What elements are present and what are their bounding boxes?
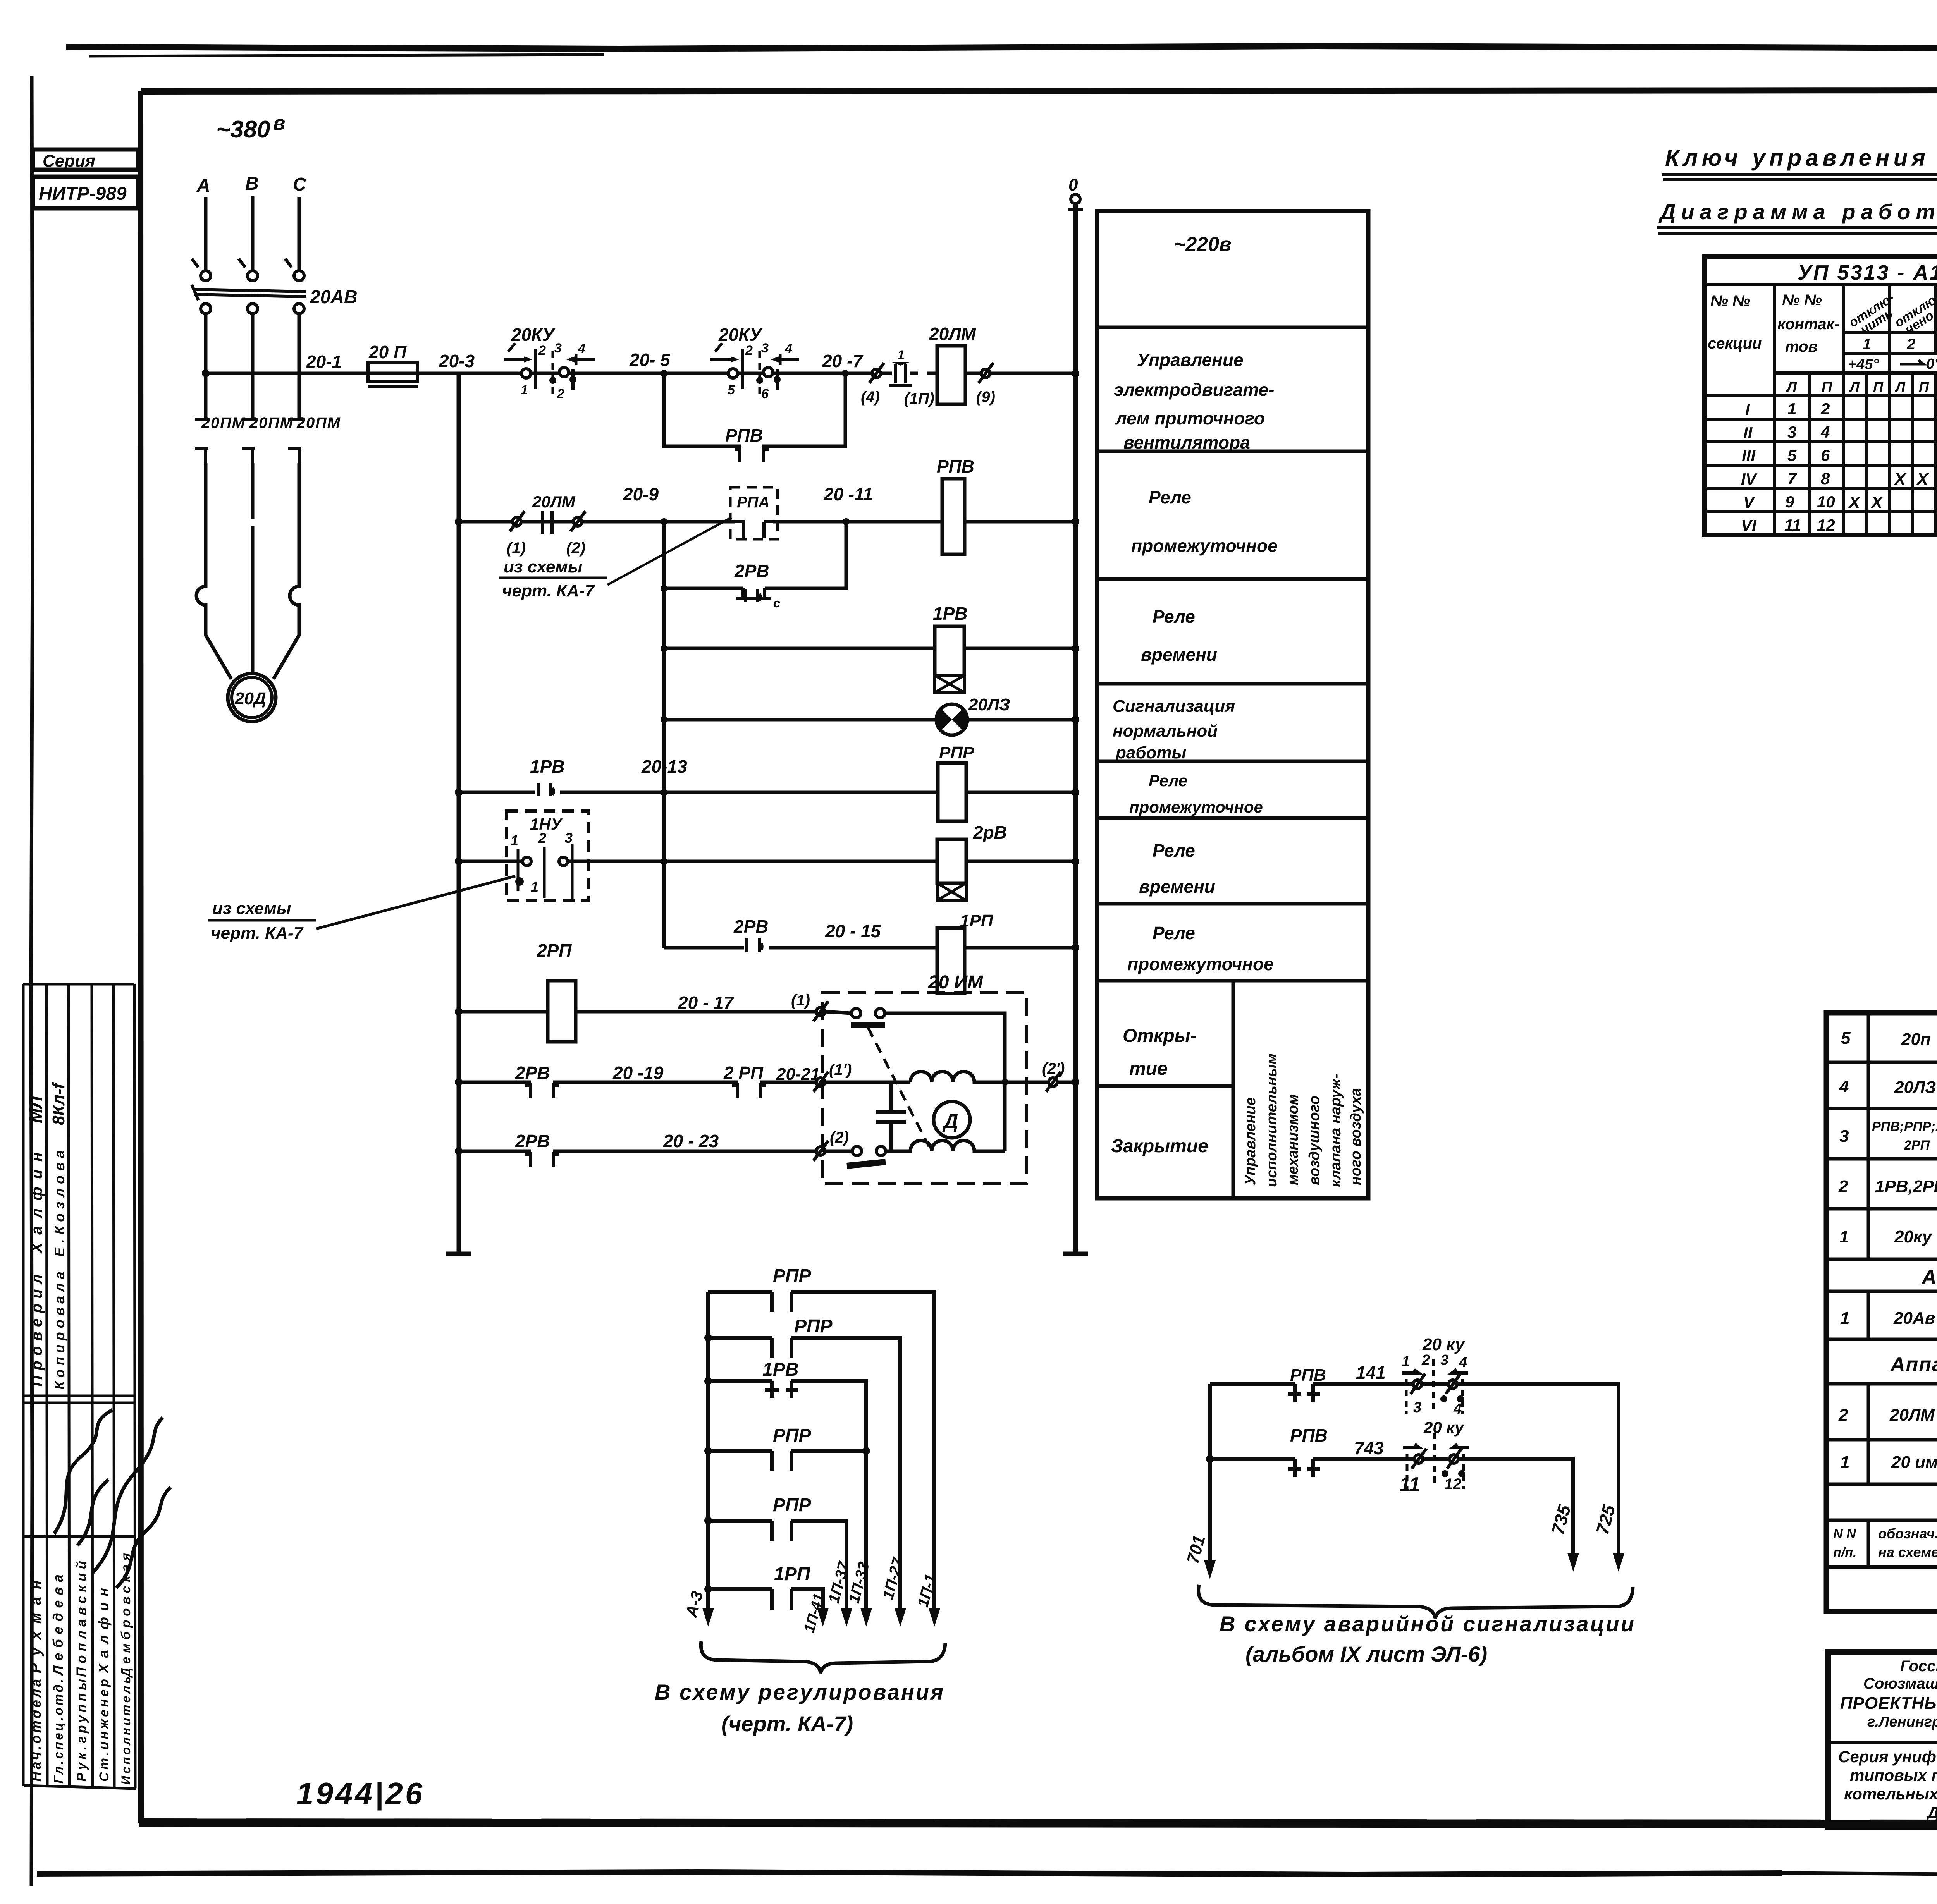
svg-text:клапана наруж-: клапана наруж- [1328,1074,1344,1187]
svg-text:РПР: РПР [794,1316,833,1337]
title block inner horizontals [1828,1682,1937,1792]
svg-text:20ку: 20ку [1894,1227,1933,1246]
switch 1NU contacts [523,857,531,866]
switch 1NU pole lines [518,844,572,901]
terminal 0 [1071,194,1080,204]
svg-text:4: 4 [1453,1401,1462,1417]
svg-text:(2'): (2') [1042,1060,1065,1077]
node branch right [842,370,849,377]
node rung 20-23 left [455,1147,463,1155]
breaker 20AB poles [192,259,306,314]
motor 20D [228,674,276,722]
svg-text:Реле: Реле [1153,607,1195,627]
limit switch link dashed [868,1027,929,1146]
svg-text:20ЛМ: 20ЛМ [929,324,977,344]
contact (2') [1046,1072,1061,1092]
svg-text:Серия: Серия [43,151,95,170]
contactor contact 20PM phase A [195,419,209,463]
svg-text:РПВ: РПВ [1290,1425,1328,1445]
contact (2) [814,1141,828,1161]
switch lower contact dot [515,877,524,886]
arrow 1П-1 [929,1608,940,1627]
node feeder 20-13 [661,789,667,796]
svg-text:времени: времени [1141,644,1217,665]
node reg line5 [704,1517,712,1524]
svg-text:промежуточное: промежуточное [1129,798,1263,816]
svg-text:типовых проектов: типовых проектов [1850,1766,1937,1784]
svg-text:(2): (2) [830,1129,849,1146]
brace reg [701,1641,945,1673]
svg-text:ДКВР.: ДКВР. [1926,1803,1937,1822]
svg-text:20АВ: 20АВ [310,287,358,308]
contact 2RV nc [525,1152,559,1167]
svg-text:7: 7 [1787,469,1797,488]
svg-text:5: 5 [728,383,735,397]
svg-text:+45°: +45° [1848,356,1879,373]
wire reg line1 [708,1292,934,1613]
svg-text:2: 2 [1820,400,1830,418]
svg-text:на схеме: на схеме [1878,1544,1937,1560]
svg-text:Серия унифицированных: Серия унифицированных [1838,1748,1937,1766]
node rung2 right [1072,518,1079,526]
contact 2RV time [747,938,762,952]
svg-text:6: 6 [761,387,769,401]
svg-text:обознач.: обознач. [1878,1526,1937,1541]
svg-text:3: 3 [1839,1127,1849,1146]
svg-text:1: 1 [521,383,528,397]
svg-text:~380: ~380 [216,116,270,143]
coil 20LM [937,346,965,404]
lamp 20LZ [936,704,967,735]
svg-text:Х: Х [1916,470,1929,489]
drawing frame [141,90,1937,91]
svg-text:20-3: 20-3 [439,351,475,371]
svg-text:черт. КА-7: черт. КА-7 [502,581,595,600]
arrow 1П-37 [841,1608,852,1627]
svg-text:нормальной: нормальной [1113,722,1218,741]
svg-text:Сигнализация: Сигнализация [1113,697,1235,716]
contact РПР [772,1338,791,1358]
svg-text:2: 2 [538,830,546,846]
svg-text:котельных с котлами: котельных с котлами [1844,1785,1937,1803]
svg-text:механизмом: механизмом [1285,1094,1301,1185]
key contact 20КУ lower [1412,1449,1426,1469]
node rung 1RV right [1072,644,1079,652]
node reg line4 right [862,1447,870,1455]
svg-text:тов: тов [1785,338,1818,355]
svg-text:(1): (1) [507,540,526,557]
contact 1РВ time [765,1381,798,1398]
svg-text:1: 1 [531,879,538,895]
svg-text:N N: N N [1833,1527,1856,1541]
svg-text:РПВ;РПР;1РП: РПВ;РПР;1РП [1872,1119,1937,1134]
svg-text:20п: 20п [1901,1030,1931,1049]
svg-text:VI: VI [1741,516,1757,534]
svg-text:0: 0 [1068,175,1078,194]
svg-text:20 - 17: 20 - 17 [678,993,735,1013]
svg-text:№ №: № № [1710,292,1750,309]
signature table grid [23,984,136,1789]
svg-text:11: 11 [1399,1473,1420,1496]
switch 20KU contacts 5-6 [728,369,738,378]
svg-text:2: 2 [557,387,564,401]
svg-text:20 ИМ: 20 ИМ [928,972,983,993]
node reg line2 [704,1334,712,1342]
svg-text:20 им: 20 им [1891,1453,1937,1472]
svg-text:20ЛМ: 20ЛМ [532,493,576,511]
wire phase A drop [204,197,208,270]
svg-text:Х: Х [1893,470,1907,489]
svg-text:IV: IV [1741,470,1758,488]
svg-text:2 РП: 2 РП [723,1063,764,1083]
svg-text:ПРОЕКТНЫЙ ИНСТИТУТ №1: ПРОЕКТНЫЙ ИНСТИТУТ №1 [1840,1693,1937,1713]
wire rung 20-23 [459,1150,852,1153]
svg-text:20 -7: 20 -7 [822,351,864,371]
svg-text:Л: Л [1894,379,1906,395]
svg-text:1944|26: 1944|26 [296,1776,425,1811]
svg-text:(9): (9) [976,388,995,406]
svg-text:(2): (2) [566,540,585,557]
svg-text:1: 1 [1787,400,1796,418]
contact RPV [735,447,769,462]
svg-text:20ЛМ: 20ЛМ [1889,1406,1935,1425]
vertical feeder wire [662,588,666,948]
svg-text:20 -11: 20 -11 [823,484,873,504]
svg-text:Л: Л [1786,379,1797,395]
coil RPV [942,479,965,554]
svg-text:I: I [1745,400,1750,419]
svg-text:РПВ: РПВ [937,456,974,476]
contact РПВ [1288,1459,1320,1477]
relay RPA dashed box [730,487,778,539]
key contact 20КУ upper [1411,1374,1425,1394]
node feeder 2RV rung [661,858,667,865]
svg-text:743: 743 [1354,1438,1384,1458]
svg-text:лем приточного: лем приточного [1115,408,1265,428]
node rung 20-19 right [1072,1078,1079,1086]
arrow 735 [1567,1553,1579,1572]
svg-text:П: П [1873,379,1884,395]
svg-text:в: в [273,112,285,134]
svg-text:3: 3 [1440,1352,1448,1368]
svg-text:Реле: Реле [1149,487,1191,507]
svg-text:1: 1 [897,348,905,363]
svg-text:8Кл-f: 8Кл-f [49,1081,68,1125]
contact (4) [869,363,884,383]
svg-text:ного воздуха: ного воздуха [1348,1088,1364,1185]
node 2RV branch [661,585,667,592]
svg-text:5: 5 [1841,1029,1851,1048]
scan border top [66,46,1937,49]
scan border left [31,76,33,1886]
svg-text:20 П: 20 П [368,342,407,362]
svg-text:20ЛЗ: 20ЛЗ [968,695,1010,714]
node 20-5 [661,370,667,377]
svg-text:электродвигате-: электродвигате- [1114,380,1274,400]
capacitor [889,1082,893,1151]
svg-text:4: 4 [1459,1354,1467,1371]
svg-text:Управление: Управление [1242,1097,1259,1185]
wire lamp rung [664,718,1075,722]
svg-text:3: 3 [565,830,573,846]
svg-text:3: 3 [1413,1399,1421,1416]
avar bus left [1208,1384,1212,1565]
svg-text:контак-: контак- [1777,316,1839,333]
limit switch lower [852,1146,862,1156]
arrow 1П-41 [817,1608,829,1627]
svg-text:Д: Д [942,1110,958,1132]
wire phase B to motor [251,463,255,673]
svg-text:2РВ: 2РВ [734,561,769,581]
svg-text:(1'): (1') [829,1061,852,1078]
svg-text:Закрытие: Закрытие [1111,1136,1208,1156]
svg-text:20-9: 20-9 [623,484,659,504]
coil 1RP [937,928,965,993]
svg-text:1: 1 [511,832,518,848]
svg-text:РПВ: РПВ [725,425,763,445]
contact 2RV [525,1083,559,1098]
svg-text:4: 4 [1820,423,1830,441]
svg-text:УП 5313 - А19: УП 5313 - А19 [1798,261,1937,284]
svg-text:2РВ: 2РВ [515,1131,550,1151]
svg-text:из схемы: из схемы [504,557,582,576]
svg-text:20ПМ: 20ПМ [249,414,294,431]
svg-text:4: 4 [578,342,585,356]
svg-text:10: 10 [1817,493,1835,511]
contactor contact 20PM phase B [242,419,256,463]
svg-text:20Ав: 20Ав [1893,1309,1935,1328]
svg-text:РПА: РПА [737,494,769,511]
svg-text:2рВ: 2рВ [973,822,1007,842]
function table frame [1097,211,1368,1198]
svg-text:Рук.группы: Рук.группы [74,1679,89,1782]
svg-text:20ПМ: 20ПМ [201,414,246,431]
node rung 20-13 left [455,789,463,796]
svg-text:1РП: 1РП [960,911,994,930]
node rung 2RV left [455,857,463,865]
arrow A-3 [702,1608,714,1627]
svg-text:Управление: Управление [1137,350,1244,370]
node lamp rung right [1072,716,1079,723]
spec table horizontals [1826,1062,1937,1567]
svg-text:Союзмашстройпроект: Союзмашстройпроект [1863,1675,1937,1692]
svg-text:Х: Х [1848,493,1861,512]
svg-text:п/п.: п/п. [1833,1545,1856,1560]
svg-text:1: 1 [1839,1227,1849,1246]
svg-text:12: 12 [1444,1476,1462,1493]
svg-text:1РВ: 1РВ [530,756,564,777]
wire phase A with heater bump [196,463,231,679]
svg-text:Аппаратура на щите вентиляц: Аппаратура на щите вентиляции [1921,1266,1937,1289]
relay 1RV time coil [935,626,964,675]
node reg line4 left [704,1447,712,1455]
left bus [457,373,461,1254]
node 20-9 [661,518,667,525]
svg-text:20- 5: 20- 5 [629,350,671,370]
node rung 20-13 right [1072,789,1079,796]
contact 1РП [772,1589,791,1610]
svg-text:V: V [1743,493,1755,511]
wire phase B down [251,314,255,420]
contact (1') [814,1072,828,1092]
table grid horizontals [1705,284,1937,512]
svg-text:Реле: Реле [1149,772,1187,790]
wire rung 2RV coil [459,860,1075,863]
svg-text:НИТР-989: НИТР-989 [39,184,127,204]
wire reg line6 [708,1589,823,1613]
contact РПР [772,1292,791,1312]
arrow 701 [1204,1560,1216,1579]
svg-text:141: 141 [1356,1363,1386,1383]
svg-text:2РВ: 2РВ [515,1063,550,1083]
2RV branch wire [664,522,846,588]
node 20-11 [843,518,850,525]
node rung 2RV right [1072,857,1079,865]
svg-text:воздушного: воздушного [1306,1096,1323,1185]
svg-text:времени: времени [1139,876,1215,897]
contact 1P [889,364,912,386]
contact 1RV time [538,783,554,796]
switch 20KU contacts 1-2 [521,369,531,378]
svg-text:Госстрой СССР: Госстрой СССР [1900,1658,1937,1675]
limit switch upper [852,1009,861,1018]
svg-text:секции: секции [1708,335,1762,352]
svg-text:2: 2 [1838,1406,1848,1425]
key diagram table frame [1705,257,1937,535]
brace avar [1199,1585,1633,1618]
svg-text:(альбом IX лист ЭЛ-6): (альбом IX лист ЭЛ-6) [1245,1642,1487,1666]
svg-text:2: 2 [745,343,753,358]
svg-text:Реле: Реле [1153,840,1195,861]
wire avar line1 [1210,1384,1619,1557]
svg-text:20Д: 20Д [234,689,266,708]
node phase A tap [202,369,210,377]
svg-text:1: 1 [1402,1354,1410,1370]
svg-text:промежуточное: промежуточное [1127,954,1274,974]
svg-text:~220в: ~220в [1174,233,1232,256]
right bus end tick [1063,1252,1088,1256]
svg-text:Гл.спец.отд.: Гл.спец.отд. [51,1679,65,1784]
contact (1) [814,1001,828,1021]
svg-text:4: 4 [1839,1077,1849,1096]
motor winding upper [910,1072,1005,1082]
svg-text:Аппаратура на щите станции упр: Аппаратура на щите станции управления ЩС… [1890,1353,1937,1376]
svg-text:4: 4 [784,342,792,356]
svg-text:20ЛЗ: 20ЛЗ [1894,1078,1936,1097]
svg-text:20-13: 20-13 [641,756,687,777]
signature scribbles [54,1410,163,1572]
svg-text:20 ку: 20 ку [1423,1418,1465,1437]
svg-text:Х: Х [1870,493,1884,512]
svg-text:20КУ: 20КУ [511,325,556,345]
svg-text:1НУ: 1НУ [530,815,563,833]
wire rung 1RV [664,647,1075,650]
wire rung1 [206,372,1075,375]
svg-text:2РП: 2РП [537,940,572,961]
svg-text:№ №: № № [1782,292,1822,309]
contact 2RV time [745,589,760,602]
svg-text:В схему аварийной сигнализации: В схему аварийной сигнализации [1220,1612,1634,1636]
svg-text:6: 6 [1821,446,1830,464]
svg-text:11: 11 [1784,516,1801,534]
svg-text:1РВ,2РВ: 1РВ,2РВ [1875,1177,1937,1196]
wire phase C with heater bump [274,463,299,679]
node internal [1001,1079,1008,1086]
contact 2RP [732,1083,766,1098]
wire phase C down [298,314,301,420]
svg-text:20 -19: 20 -19 [612,1063,664,1083]
svg-text:9: 9 [1785,493,1794,511]
node rung 20-15 right [1072,944,1079,952]
node rung2 left [455,518,463,526]
title block frame [1828,1652,1937,1827]
RPV seal-in branch wire [664,373,845,446]
arrow 725 [1613,1553,1624,1572]
node avar line2 [1206,1455,1214,1463]
svg-text:20ПМ: 20ПМ [296,414,341,431]
svg-text:20КУ: 20КУ [718,325,763,345]
svg-text:РПР: РПР [773,1266,812,1286]
wire phase B drop [251,196,255,270]
reg bus left [706,1292,710,1613]
svg-text:2: 2 [1838,1177,1848,1196]
svg-text:Реле: Реле [1153,923,1195,943]
left bus end tick [446,1252,471,1256]
svg-text:тие: тие [1129,1059,1168,1079]
contact 20LM aux [510,511,525,531]
switch 1NU dashed box [506,811,588,901]
table grid verticals [1774,284,1937,535]
svg-text:МЛ: МЛ [26,1096,46,1123]
svg-text:0°: 0° [1926,356,1937,372]
svg-text:8: 8 [1821,469,1830,488]
svg-text:Откры-: Откры- [1123,1026,1197,1046]
svg-text:С: С [293,174,307,195]
contact (9) [979,363,993,383]
node rung 20-19 left [455,1078,463,1086]
arrow 1П-33 [860,1608,872,1627]
spec table frame [1826,1013,1937,1612]
wire reg line4 [708,1449,866,1453]
svg-text:Е.Козлова: Е.Козлова [52,1150,67,1257]
svg-text:20 ку: 20 ку [1422,1335,1466,1354]
svg-text:Л: Л [1849,379,1860,395]
svg-text:20-1: 20-1 [306,352,342,372]
svg-text:П: П [1919,379,1929,395]
wire rung 20-19 [459,1081,910,1084]
contact RPA hooks [735,522,773,538]
svg-text:РПР: РПР [939,743,974,762]
svg-text:из схемы: из схемы [212,899,291,918]
svg-text:2РВ: 2РВ [733,916,768,937]
svg-text:(черт. КА-7): (черт. КА-7) [721,1712,853,1736]
coil 2RP [548,981,576,1042]
node reg line6 [704,1585,712,1593]
coil RPR [938,763,966,821]
right bus [1073,204,1078,1254]
wire to contact 2' [1005,1081,1075,1084]
contact РПВ [1288,1384,1320,1402]
svg-text:20 - 15: 20 - 15 [825,921,881,941]
svg-text:Исполнитель: Исполнитель [119,1676,133,1785]
contact РПР [772,1521,791,1541]
wire upper internal [885,1013,1005,1151]
svg-text:20-21: 20-21 [776,1065,820,1084]
node feeder lamp [661,716,667,723]
svg-text:3: 3 [554,341,562,356]
node feeder 1RV [661,645,667,652]
wire phase A to bus [204,314,208,420]
